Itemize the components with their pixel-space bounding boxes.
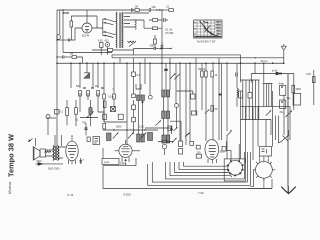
wire V6 bottom stub — [263, 178, 265, 188]
chassis arrowhead — [281, 187, 295, 194]
speaker SP1 line — [32, 146, 34, 161]
wire drop x186 — [185, 63, 187, 145]
capacitor C16 — [132, 94, 136, 98]
tube V4 pins — [208, 159, 217, 164]
wire R6 out — [77, 57, 83, 63]
trimmer CT1 — [175, 104, 179, 108]
pot VR2 arrow — [87, 113, 94, 118]
node IF dot — [142, 101, 144, 103]
socket V6 top stubs — [260, 156, 269, 159]
arrowhead S12 — [145, 132, 147, 134]
coil L1 secondary — [121, 12, 124, 48]
wire feed y50 — [92, 49, 134, 55]
arrowhead D4 — [176, 127, 178, 129]
wire L2 to RC — [135, 13, 149, 28]
resistor R4 — [154, 39, 157, 44]
speaker SP1 cone — [34, 147, 40, 160]
capacitor dashes row — [83, 87, 104, 89]
graph curve 2 — [204, 26, 214, 35]
arrowhead S10 — [117, 132, 119, 134]
wire IFT1a links — [138, 101, 142, 135]
wire C10 — [85, 123, 87, 135]
wire nest 4 — [170, 162, 232, 177]
box x196b — [196, 154, 201, 158]
svg-text:5000 7000: 5000 7000 — [48, 168, 60, 171]
node grid junction — [56, 39, 57, 40]
resistor R13 — [75, 108, 78, 115]
wire right verticals — [246, 91, 291, 163]
box x191 — [192, 111, 197, 115]
svg-text:+: + — [83, 158, 85, 162]
coil L1 primary — [115, 12, 118, 48]
wire drop x145 — [144, 63, 146, 84]
wire S5 leads — [278, 130, 288, 143]
wire top feed — [126, 9, 149, 11]
wire pot down — [47, 119, 49, 136]
bus right y106 — [241, 106, 291, 108]
trimmer CT2 — [105, 42, 109, 46]
wire R1 leads — [70, 16, 72, 40]
wire C2 out arrow — [151, 9, 161, 11]
wire C1 to antenna — [57, 39, 68, 41]
wire grid lead — [70, 28, 75, 40]
wire terminal to speaker — [35, 138, 37, 146]
svg-text:50k 2k: 50k 2k — [198, 68, 206, 71]
coil small L7 — [237, 88, 239, 97]
tube V4 — [205, 139, 219, 159]
plus mark cap — [124, 159, 127, 165]
box C12 — [132, 117, 136, 121]
switch S1c — [129, 43, 134, 47]
wire link y91 — [177, 91, 193, 94]
tube socket V5 — [228, 160, 243, 175]
resistor R6 — [72, 56, 77, 59]
resistor R9 — [97, 91, 100, 97]
graph vertical gridlines — [197, 20, 218, 38]
wire top feed right — [162, 9, 169, 11]
main bus B+ — [57, 62, 284, 64]
coil L1 core — [120, 13, 121, 49]
graph left ticks — [194, 23, 196, 35]
arrowhead S4 — [159, 120, 161, 122]
wire drop x114 — [113, 63, 115, 94]
dial lamp LP1 — [281, 44, 287, 63]
wire under speaker — [36, 163, 64, 165]
output transformer T3 core — [55, 146, 58, 160]
wire nest 8 outer — [103, 166, 272, 189]
switch S1b contacts — [105, 31, 106, 32]
resistor R10 — [292, 85, 295, 93]
wire V2 area verticals — [55, 135, 61, 146]
diode blob D5 — [185, 133, 189, 137]
tube V2 top pin — [71, 135, 73, 141]
IF transformer T1c — [162, 111, 170, 119]
tube U1 electrodes — [85, 27, 89, 32]
box X1 — [110, 107, 115, 112]
speaker field zigzag — [45, 151, 52, 153]
svg-text:1k: 1k — [215, 74, 218, 77]
svg-text:25µ: 25µ — [280, 112, 285, 114]
tube V2 electrodes — [68, 146, 76, 158]
wire CT1 — [176, 108, 178, 129]
resistor R19 — [201, 71, 204, 77]
resistor R7 — [79, 91, 82, 97]
arrowhead S7 — [208, 109, 210, 111]
arrowhead S8 — [174, 73, 176, 75]
trimmer CT2 dot — [107, 44, 108, 45]
capacitor blob x166 — [164, 69, 167, 71]
resistor R14 — [103, 101, 106, 108]
wire drop x170 — [169, 63, 171, 90]
chassis arrow line — [287, 74, 289, 186]
wire mid links — [98, 108, 127, 123]
gang frame top — [112, 55, 241, 58]
graph frame — [194, 20, 223, 38]
gang frame bottom rail — [112, 57, 284, 59]
switch S11 — [128, 133, 133, 139]
svg-text:9+43 8/5 7.87: 9+43 8/5 7.87 — [197, 40, 216, 44]
svg-text:1M: 1M — [135, 6, 138, 9]
box X1 cross — [110, 107, 115, 112]
jack circle J2 — [162, 144, 167, 149]
switch S3 — [286, 111, 292, 117]
wire drop x176 — [175, 63, 177, 103]
wire main vertical x162 — [161, 10, 163, 63]
resistor R15 — [211, 106, 214, 112]
socket V5 box — [224, 159, 245, 181]
svg-text:250: 250 — [197, 152, 202, 155]
switch S1b — [106, 32, 114, 38]
wire drop x140 — [139, 63, 141, 95]
wire band row — [103, 129, 158, 131]
power box — [293, 93, 301, 105]
wire R12 — [66, 100, 68, 126]
arrowhead terminal — [28, 139, 31, 142]
wire top bus — [57, 9, 126, 11]
svg-text:90 cm: 90 cm — [261, 59, 268, 63]
connector detail — [95, 139, 99, 144]
box V2 grid — [87, 137, 90, 142]
node top x157 — [156, 9, 157, 10]
wire drop x237 — [236, 63, 238, 106]
mains box — [260, 147, 272, 157]
resistor R18 horizontal — [162, 140, 167, 143]
resistor R16 — [103, 94, 106, 99]
diode D1 bar — [84, 72, 90, 74]
wire nest 6 — [152, 152, 247, 182]
svg-text:5000: 5000 — [116, 126, 122, 129]
wire antenna vertical — [56, 10, 58, 146]
coil L5 — [107, 133, 112, 141]
box x196 — [196, 145, 200, 149]
wire T3 leads — [46, 147, 67, 158]
wire drop x221 — [221, 63, 223, 140]
svg-text:xxxx: xxxx — [104, 161, 110, 164]
wire drop x202 — [201, 63, 203, 110]
svg-text:50µ: 50µ — [287, 98, 292, 100]
capacitor C9 — [55, 110, 60, 115]
wire R16 down — [104, 99, 114, 122]
node mid — [87, 117, 88, 118]
node band dots — [113, 129, 145, 130]
winding taps 2 — [263, 84, 273, 107]
box x104 low — [103, 124, 106, 130]
graph curve 3 — [203, 22, 218, 37]
gang stubs — [120, 58, 219, 63]
wire nest 5 — [166, 152, 245, 179]
box B3 — [179, 141, 183, 147]
wire R18 — [158, 141, 173, 143]
wire C12 — [133, 122, 135, 134]
output transformer T3 w1 — [53, 146, 55, 161]
output transformer T3 w2 — [58, 146, 60, 161]
capacitor blob mid — [170, 129, 172, 131]
heater bracket — [136, 84, 141, 89]
wire drop x219 — [218, 63, 220, 140]
wire R2 leads — [149, 19, 162, 21]
arrowhead C5 — [160, 48, 163, 50]
winding trimmer box 1 — [239, 91, 243, 98]
arrowhead 90cm — [272, 62, 275, 64]
svg-text:1M: 1M — [70, 52, 74, 56]
box x189 — [190, 141, 194, 145]
tube socket V6 — [256, 161, 273, 178]
node dot mid — [171, 126, 173, 128]
node y57 — [56, 56, 57, 57]
speaker SP1 coil box — [40, 149, 46, 157]
wire drop x87 — [86, 63, 88, 72]
IF transformer T2b — [162, 135, 170, 143]
wire drop x104 — [103, 63, 105, 94]
wire mid hline2 — [80, 117, 98, 119]
wire drop x71 — [70, 63, 72, 88]
resistor R20 — [205, 71, 208, 77]
svg-text:0,0 m: 0,0 m — [108, 96, 114, 99]
graph right labels — [216, 22, 222, 34]
wire left arrow terminal — [29, 139, 33, 142]
tube V2 pins — [69, 160, 76, 164]
box under V3 — [102, 159, 119, 165]
switch S1a — [106, 19, 114, 25]
tube V3 electrodes — [122, 146, 130, 154]
mains box detail — [262, 149, 267, 154]
tube V3 — [119, 144, 132, 157]
svg-text:50: 50 — [215, 108, 218, 111]
switch S9 — [175, 74, 180, 80]
wire drop x166 — [165, 63, 167, 90]
wire drop x240 low — [240, 91, 242, 159]
wire drop x80 — [79, 63, 81, 88]
wire drop x263 — [263, 63, 265, 82]
svg-text:410: 410 — [105, 40, 110, 43]
node A — [62, 9, 63, 10]
wire antenna vertical 2 — [59, 10, 61, 34]
wire drop x180 — [179, 63, 181, 141]
wire x313 — [313, 70, 315, 105]
node bus junctions — [56, 62, 284, 64]
wire drop x98 — [97, 63, 99, 88]
svg-text:EL3: EL3 — [220, 150, 225, 154]
switch S8 — [170, 74, 175, 80]
arrowhead S6 — [230, 130, 232, 132]
capacitor C5 — [154, 47, 156, 50]
switch S1a contacts — [105, 18, 106, 19]
wire nest 2 — [179, 162, 228, 169]
svg-text:4000: 4000 — [296, 88, 302, 91]
wire L4 — [90, 100, 92, 126]
wire drop x206 — [205, 63, 207, 141]
resistor R8 — [87, 91, 90, 97]
capacitor C7 — [132, 72, 136, 76]
svg-text:0,1: 0,1 — [60, 110, 64, 114]
socket V5 top stubs — [227, 141, 240, 160]
coil L4 — [89, 108, 92, 115]
node top x162 — [161, 9, 162, 10]
wire R4 leads — [154, 35, 156, 49]
IF transformer T1b — [162, 90, 170, 97]
svg-text:0,1: 0,1 — [75, 119, 79, 122]
wire mid right links — [145, 127, 172, 135]
coil L3 — [128, 41, 136, 43]
switch S12 — [141, 133, 147, 139]
box x102 — [103, 114, 107, 119]
wire switch feed — [97, 19, 105, 36]
node gang right — [254, 57, 255, 58]
svg-text:0,1: 0,1 — [166, 6, 170, 9]
wire IFT1b links — [164, 97, 169, 135]
transformer winding verticals — [241, 80, 260, 120]
arrowhead VR2 — [92, 111, 94, 113]
svg-text:7 92: 7 92 — [198, 191, 204, 195]
capacitor C6 — [62, 55, 64, 58]
wire drop x196 — [195, 63, 197, 115]
resistor R22 — [135, 9, 139, 12]
svg-text:0,5 50k: 0,5 50k — [165, 31, 174, 35]
wire drop x227 — [226, 63, 228, 159]
capacitor C4 — [161, 42, 164, 50]
wire nest 3 — [175, 162, 231, 174]
wire drop x213 — [212, 63, 214, 140]
switch S13 — [172, 138, 176, 143]
wire drop x240 — [240, 63, 242, 82]
wire R13 — [75, 100, 77, 126]
switch S6 — [227, 131, 232, 135]
tube U1 pins — [75, 10, 97, 28]
arrowhead S5 — [287, 135, 289, 137]
graph horizontal gridlines — [194, 23, 223, 35]
capacitor C14 — [236, 73, 237, 77]
cap blob x220 — [219, 94, 222, 96]
box x118 — [118, 114, 123, 119]
diode D2 — [276, 72, 281, 75]
diode D4 — [174, 128, 178, 132]
trimmer CT2 box — [100, 43, 104, 48]
switch S4 — [156, 121, 161, 126]
svg-text:0,05: 0,05 — [306, 73, 311, 76]
socket V6 pins — [253, 159, 275, 181]
svg-text:7000: 7000 — [36, 160, 42, 163]
resistor R11 — [312, 77, 315, 83]
svg-text:EBF2: EBF2 — [120, 162, 127, 166]
arrowhead C2 — [159, 9, 162, 11]
resistor R12 — [66, 108, 69, 116]
coil L6 — [148, 133, 153, 141]
wire nest 7 — [148, 152, 251, 185]
tube U1 ECH4 — [82, 23, 92, 33]
switch S10 — [113, 133, 118, 139]
wire drop x190 — [189, 63, 191, 141]
wire C6 to R6 — [64, 56, 72, 58]
svg-text:408: 408 — [150, 43, 155, 47]
box B4 — [179, 149, 183, 155]
arrowhead S3 — [291, 110, 293, 112]
svg-text:je 6V: je 6V — [271, 70, 278, 73]
svg-text:22k: 22k — [152, 5, 157, 9]
wire drop x93 — [92, 63, 94, 88]
capacitor C11 — [132, 105, 136, 109]
capacitor C1 — [68, 39, 69, 42]
wire osc box left — [63, 10, 112, 53]
resistor R23 — [169, 9, 174, 12]
wire coil taps — [124, 13, 135, 27]
wire AVC y57 — [57, 56, 62, 58]
capacitor C15 — [131, 8, 133, 12]
electrolytic C8 — [280, 85, 286, 95]
box B6 — [168, 126, 172, 131]
wire drop x255 — [254, 63, 256, 73]
electrolytic C8b — [280, 100, 286, 109]
box B5 — [222, 147, 226, 152]
graph bottom axis labels — [194, 36, 221, 38]
wire drop x150 — [149, 63, 151, 95]
switch S2 — [266, 111, 271, 116]
wire C5 arrow — [156, 48, 172, 50]
wire inner top — [71, 16, 97, 28]
diode D3 — [38, 163, 43, 166]
svg-text:4 290: 4 290 — [123, 192, 131, 196]
capacitor C13 electrolytic — [80, 158, 83, 164]
capacitor C10 blob — [85, 128, 88, 129]
chassis arrowhead inner — [287, 186, 289, 193]
wire V3 bottom — [103, 148, 136, 166]
tube V2 EBL1 — [66, 141, 78, 161]
IF transformer T1a primary — [137, 95, 145, 101]
wire gang stub right — [240, 58, 242, 63]
arrowhead S11 — [132, 132, 134, 134]
capacitor C3 — [164, 18, 168, 22]
diode D1 — [84, 73, 90, 78]
wire drop x133.5 — [133, 58, 135, 72]
graph curve 1 — [200, 21, 213, 35]
svg-text:2M: 2M — [95, 85, 98, 88]
wire y48.5 — [134, 48, 154, 50]
wire R3 leads — [144, 27, 162, 29]
electrolytic C8b plus — [281, 101, 283, 103]
wire resistors down — [80, 93, 98, 112]
svg-text:6SW: 6SW — [63, 11, 70, 15]
wire C11 — [133, 100, 135, 117]
wire drop x127 — [126, 63, 128, 145]
wire CT2 stubs — [101, 47, 107, 55]
socket V5 pin blobs — [227, 160, 243, 176]
antenna jack J1 — [57, 35, 60, 40]
svg-text:Tempo 38 W: Tempo 38 W — [7, 134, 16, 177]
wire C7 down — [133, 76, 135, 95]
box B2 — [191, 94, 195, 99]
node y48 — [170, 48, 171, 49]
arrowhead D5 — [188, 132, 190, 134]
bus right y119 — [241, 119, 272, 121]
